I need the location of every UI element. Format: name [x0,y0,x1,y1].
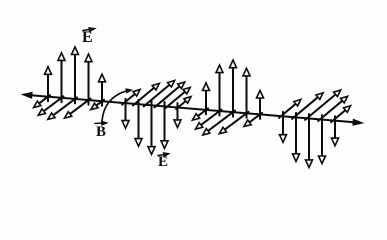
B-field arrow G4-3 (NE) at x=307 [305,94,336,120]
axis left arrowhead [22,92,32,98]
label B vector arrow [95,122,103,125]
E-field arrow G1-4 (up) at x=88.5 [88,60,90,105]
svg-text:E: E [158,154,168,170]
E-field arrow G1-3 (up) at x=75 [74,53,76,104]
E-field arrow G3-4 (up) at x=246.5 [246,74,248,118]
E-field arrow G1-5 (up) at x=102 [101,80,103,106]
E-field arrow G4-1 (down) at x=283 [282,112,284,137]
B-field arrow G2-2 (NE) at x=134.8 [133,87,155,106]
B-field arrow G2-6 (NE) at x=178 [176,100,187,109]
axis right arrowhead [353,119,363,125]
leader curve from B label to first NE B arrow [102,91,126,121]
E-field arrow G2-1 (down) at x=125.5 [125,99,127,123]
B-field arrow G3-4 (SW) at x=246.5 [224,112,249,131]
B-field arrow G4-4 (NE) at x=320 [318,100,343,121]
svg-text:B: B [96,124,106,140]
E-field arrow G4-3 (down) at x=309 [308,114,310,162]
E-field arrow G2-4 (down) at x=164.5 [164,102,166,142]
B-field arrow G1-4 (SW) at x=88.5 [69,99,91,115]
E-field arrow G2-5 (down) at x=177.5 [177,103,179,122]
E-field arrow G4-5 (down) at x=335 [334,116,336,140]
B-field arrow G2-5 (NE) at x=167.2 [165,91,186,108]
label E (bottom) vector arrow [158,155,165,156]
B-field arrow G3-3 (SW) at x=233 [207,111,235,132]
B-field arrow G2-4 (NE) at x=156.4 [155,86,181,108]
B-field arrow G1-1 (SW) at x=48 [38,95,50,104]
B-field arrow G3-5 (SW) at x=260 [248,113,262,123]
E-field arrow G2-3 (down) at x=151.5 [151,101,153,149]
B-field arrow G1-2 (SW) at x=61.5 [43,96,64,112]
B-field arrow G1-5 (SW) at x=102 [95,100,104,107]
E-field arrow G1-2 (up) at x=61.5 [61,59,63,103]
E-field arrow G3-3 (up) at x=233 [232,66,234,117]
label E (top) vector arrow [83,29,92,31]
B-field arrow G4-1 (NE) at x=281 [279,103,297,118]
E-field arrow G1-1 (up) at x=48 [47,73,49,102]
B-field arrow G4-2 (NE) at x=294 [292,96,319,119]
E-field arrow G3-1 (up) at x=206 [205,89,207,115]
E-field arrow G2-2 (down) at x=138.5 [138,100,140,141]
B-field arrow G4-5 (NE) at x=333 [331,109,346,122]
E-field arrow G3-5 (up) at x=260 [259,96,261,119]
B-field arrow G3-1 (SW) at x=206 [197,108,208,116]
B-field arrow G1-3 (SW) at x=75 [52,97,77,116]
B-field arrow G2-3 (NE) at x=145.6 [144,84,171,107]
propagation axis (z) line [28,95,357,123]
E-field arrow G3-2 (up) at x=219.5 [219,71,221,116]
svg-text:E: E [82,29,93,46]
B-field arrow G2-1 (NE) at x=124 [122,93,136,105]
E-field arrow G4-4 (down) at x=322 [321,115,323,158]
E-field arrow G4-2 (down) at x=296 [295,113,297,155]
B-field arrow G3-2 (SW) at x=219.5 [200,110,222,126]
